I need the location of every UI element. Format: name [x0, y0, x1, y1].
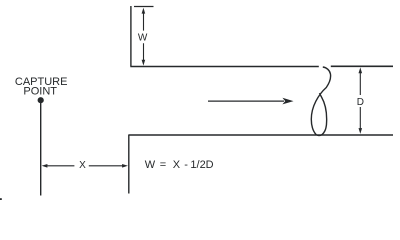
dimension W arrow line segments: [143, 10, 145, 63]
wire: capture point vertical: [40, 103, 42, 196]
svg-text:D: D: [357, 97, 364, 108]
W arrowhead down: [142, 60, 146, 66]
svg-text:POINT: POINT: [23, 86, 57, 98]
dimension D arrow line segments: [359, 70, 361, 132]
flow arrow shaft: [208, 100, 284, 102]
X arrowhead left: [42, 164, 48, 168]
corner scan speck: [0, 198, 2, 200]
wire: upper-left vertical wall: [130, 6, 132, 66]
loop: pigtail curl in the stream line: [311, 67, 330, 136]
wire: W dimension extension tick: [134, 6, 154, 8]
wire: top channel line right of loop: [331, 65, 393, 67]
flow arrowhead (barbed): [282, 98, 293, 105]
D arrowhead up: [359, 67, 363, 73]
dimension X arrow line segments: [44, 165, 125, 167]
wire: top channel line left of loop: [130, 66, 318, 68]
capture point dot: [38, 97, 44, 103]
wire: lower-left step vertical: [128, 135, 130, 194]
X arrowhead right: [122, 164, 128, 168]
svg-text:W: W: [138, 32, 148, 43]
wire: bottom channel line: [129, 134, 393, 136]
W arrowhead up: [142, 8, 146, 14]
D arrowhead down: [359, 128, 363, 134]
svg-text:W=X-1/2D: W=X-1/2D: [145, 159, 214, 171]
svg-text:X: X: [79, 160, 86, 171]
